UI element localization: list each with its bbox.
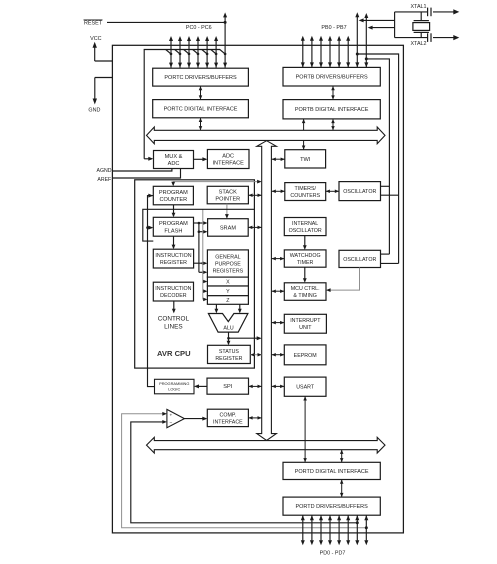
svg-text:VCC: VCC [90, 36, 101, 42]
svg-text:PROGRAM: PROGRAM [159, 221, 188, 227]
wire SPI to programming logic [194, 384, 207, 388]
svg-text:PORTD DIGITAL INTERFACE: PORTD DIGITAL INTERFACE [295, 469, 369, 475]
register X [207, 277, 248, 286]
data bus lower [147, 437, 386, 453]
svg-text:PORTB DIGITAL INTERFACE: PORTB DIGITAL INTERFACE [295, 107, 369, 113]
wire SRAM to bus [248, 226, 262, 230]
wire bus to PORTD interface [340, 450, 344, 463]
wire SPI to bus [249, 385, 262, 389]
MUX and ADC [154, 151, 194, 169]
svg-text:GND: GND [88, 107, 100, 113]
svg-text:PD0 - PD7: PD0 - PD7 [320, 551, 346, 557]
svg-text:STACK: STACK [219, 189, 238, 195]
wire AGND [97, 168, 172, 174]
wire AIN0 loop [122, 412, 368, 529]
svg-text:PURPOSE: PURPOSE [215, 261, 241, 267]
svg-text:Y: Y [226, 289, 230, 295]
wire stack pointer to bus [248, 194, 261, 198]
label PC0 - PC6 [186, 25, 212, 31]
svg-text:COMP.: COMP. [220, 412, 237, 418]
wire ALU to status register and bus [227, 332, 262, 345]
wire oscillator U1 taps [381, 186, 399, 195]
crystal Y1 [413, 12, 430, 38]
svg-text:ADC: ADC [222, 153, 234, 159]
wire XTAL1 out [395, 9, 460, 14]
wire instruction decoder loop [143, 209, 255, 241]
svg-text:INTERRUPT: INTERRUPT [290, 318, 321, 324]
wire programming logic to flash and counter [146, 194, 154, 387]
svg-text:PORTB DRIVERS/BUFFERS: PORTB DRIVERS/BUFFERS [296, 75, 368, 81]
timers/counters [285, 183, 326, 201]
svg-text:FLASH: FLASH [164, 228, 182, 234]
svg-text:ADC: ADC [168, 161, 180, 167]
svg-text:OSCILLATOR: OSCILLATOR [343, 189, 376, 195]
wire MCU ctrl to bus [272, 289, 285, 293]
VCC pin [90, 36, 112, 61]
wire instruction register to registers [194, 261, 208, 265]
wire PORTB interface to data bus [331, 119, 335, 130]
oscillator U2 [339, 250, 381, 267]
GND pin [88, 78, 112, 114]
capacitor C2 [428, 33, 431, 42]
SRAM [208, 219, 249, 237]
svg-text:AVR CPU: AVR CPU [157, 349, 191, 358]
PORTC pins PC0-PC6 [169, 12, 227, 67]
PORTC digital interface [153, 100, 249, 118]
RESET pin label [84, 20, 103, 27]
PORTD drivers/buffers [283, 497, 380, 515]
svg-text:REGISTERS: REGISTERS [213, 268, 244, 274]
svg-text:INSTRUCTION: INSTRUCTION [155, 253, 191, 259]
svg-text:MUX &: MUX & [165, 154, 183, 160]
wire oscillator U2 taps [381, 254, 399, 263]
wire status register to bus [250, 353, 261, 357]
PORTC drivers/buffers [153, 68, 249, 86]
wire RESET to PC6 [107, 21, 227, 24]
svg-text:ALU: ALU [223, 325, 233, 331]
MCU ctrl and timing [284, 283, 326, 301]
ADC interface [207, 150, 249, 169]
svg-text:AREF: AREF [97, 177, 111, 183]
wire program counter to program flash [172, 205, 176, 218]
wire indirect address to X Y Z [203, 209, 208, 301]
wire timers to bus [272, 190, 285, 194]
programming logic [155, 379, 195, 394]
svg-text:AGND: AGND [97, 168, 112, 174]
interrupt unit [284, 314, 326, 333]
wire AREF [97, 169, 180, 184]
instruction decoder [153, 282, 193, 301]
svg-text:INTERFACE: INTERFACE [212, 161, 244, 167]
wire interrupt unit to bus [272, 321, 285, 325]
svg-text:X: X [226, 279, 230, 285]
svg-text:SRAM: SRAM [220, 225, 237, 231]
PORTB digital interface [283, 100, 380, 119]
program counter [153, 186, 193, 205]
wire EEPROM to bus [272, 353, 285, 357]
wire XTAL2 out [395, 35, 460, 40]
chip boundary [112, 45, 403, 533]
svg-text:PROGRAMMING: PROGRAMMING [159, 381, 189, 386]
internal oscillator [284, 218, 326, 236]
comparator interface [207, 409, 248, 426]
svg-text:INTERFACE: INTERFACE [213, 419, 243, 425]
wire watchdog to bus [272, 257, 285, 261]
svg-text:REGISTER: REGISTER [160, 260, 187, 266]
svg-text:LOGIC: LOGIC [168, 387, 180, 392]
AVR CPU label [157, 349, 191, 358]
wire PORTB drivers to interface [331, 86, 335, 100]
svg-text:OSCILLATOR: OSCILLATOR [343, 257, 376, 263]
wire comparator interface to bus [248, 416, 261, 420]
svg-text:STATUS: STATUS [219, 349, 240, 355]
wire comparator out [184, 417, 207, 421]
wire AIN1 loop [131, 420, 359, 524]
EEPROM [284, 345, 326, 365]
status register [208, 345, 251, 363]
svg-text:EEPROM: EEPROM [294, 353, 317, 359]
USART [284, 377, 326, 396]
svg-text:TWI: TWI [300, 157, 311, 163]
svg-text:COUNTER: COUNTER [160, 197, 188, 203]
AVR CPU boundary [135, 180, 255, 368]
svg-text:& TIMING: & TIMING [293, 293, 316, 299]
svg-text:PB0 - PB7: PB0 - PB7 [321, 25, 346, 31]
svg-text:MCU CTRL.: MCU CTRL. [291, 286, 320, 292]
program flash [153, 217, 193, 236]
PORTD pins PD0-PD7 [301, 515, 369, 545]
svg-text:DECODER: DECODER [160, 293, 187, 299]
TWI [285, 150, 326, 168]
svg-text:USART: USART [296, 385, 315, 391]
svg-text:COUNTERS: COUNTERS [290, 193, 320, 199]
wire decoder to control lines [172, 301, 176, 313]
register Z [207, 296, 248, 305]
XTAL2 pin label [410, 41, 426, 47]
svg-text:PC0 - PC6: PC0 - PC6 [186, 25, 212, 31]
svg-text:POINTER: POINTER [215, 197, 240, 203]
svg-text:PROGRAM: PROGRAM [159, 190, 188, 196]
capacitor C1 [428, 8, 431, 17]
wire PORTD interface to drivers [340, 480, 344, 498]
wire XTAL1 net to oscillators [357, 54, 398, 263]
wire PORTB interface to TWI [302, 119, 306, 150]
data bus upper [147, 127, 386, 144]
label PB0 - PB7 [321, 25, 346, 31]
wire PORTC interface to data bus [199, 118, 203, 131]
wire stack pointer to SRAM [225, 204, 229, 219]
wire TWI to bus [272, 157, 285, 161]
control lines label [158, 315, 190, 330]
svg-text:SPI: SPI [223, 384, 232, 390]
svg-text:TIMERS/: TIMERS/ [295, 186, 317, 192]
svg-text:RESET: RESET [84, 21, 103, 27]
label PD0 - PD7 [320, 551, 346, 557]
data bus vertical [257, 141, 277, 441]
svg-text:TIMER: TIMER [297, 260, 314, 266]
wire PORTC drivers to interface [199, 86, 203, 100]
svg-text:INTERNAL: INTERNAL [292, 221, 318, 227]
wire interrupt vector to program counter and bus [171, 180, 261, 187]
svg-text:PORTC DRIVERS/BUFFERS: PORTC DRIVERS/BUFFERS [164, 75, 237, 81]
svg-text:−: − [169, 422, 172, 427]
wire USART to PORTD interface [303, 396, 307, 462]
wire oscillator U2 to MCU ctrl [326, 268, 360, 293]
svg-text:CONTROL: CONTROL [158, 315, 190, 322]
svg-text:LINES: LINES [164, 323, 182, 330]
wire watchdog to MCU ctrl [303, 267, 307, 283]
wire XTAL2 to PB7 pin [368, 26, 395, 30]
watchdog timer [284, 250, 326, 267]
wire XTAL2 net to oscillators [366, 59, 389, 254]
wire flash operand to SRAM and registers [194, 221, 208, 274]
wire USART to bus [272, 385, 285, 389]
svg-text:UNIT: UNIT [299, 325, 312, 331]
svg-text:XTAL1: XTAL1 [410, 4, 426, 10]
svg-text:XTAL2: XTAL2 [410, 41, 426, 47]
general purpose registers [207, 250, 248, 277]
wire Z to ALU a [215, 304, 219, 313]
PORTB drivers/buffers [283, 67, 380, 86]
svg-text:REGISTER: REGISTER [215, 356, 242, 362]
comparator A1 [167, 409, 185, 427]
stack pointer [207, 186, 248, 204]
svg-text:+: + [169, 413, 172, 418]
ALU [208, 314, 248, 333]
instruction register [153, 249, 193, 268]
wire Z to ALU b [238, 304, 242, 313]
XTAL1 pin label [410, 4, 426, 10]
wire MUX to ADC interface [194, 157, 208, 161]
wire XTAL1 to PB6 pin [359, 18, 395, 22]
wire XTAL loop left [394, 12, 396, 38]
PORTD digital interface [283, 462, 380, 479]
PORTB pins PB0-PB7 [301, 12, 369, 67]
svg-text:PORTC DIGITAL INTERFACE: PORTC DIGITAL INTERFACE [164, 107, 238, 113]
svg-text:INSTRUCTION: INSTRUCTION [155, 286, 191, 292]
svg-text:GENERAL: GENERAL [215, 255, 240, 261]
SPI [207, 378, 249, 394]
wire timers to oscillator [326, 190, 339, 194]
wire internal osc to watchdog [303, 236, 307, 250]
oscillator U1 [339, 182, 381, 201]
svg-text:OSCILLATOR: OSCILLATOR [289, 228, 322, 234]
register Y [207, 286, 248, 296]
svg-text:WATCHDOG: WATCHDOG [290, 253, 321, 259]
wire program flash to instruction register [172, 236, 176, 249]
svg-text:PORTD DRIVERS/BUFFERS: PORTD DRIVERS/BUFFERS [295, 504, 368, 510]
wire ADC input rail to MUX [144, 50, 226, 161]
